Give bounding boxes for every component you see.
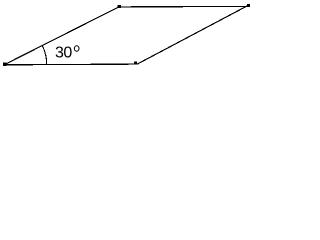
svg-text:30: 30 (55, 45, 72, 62)
angle arc at vertex A (42, 46, 46, 65)
node C (top-right vertex dot) (247, 4, 250, 7)
wire: side AB (bottom edge) (5, 63, 139, 66)
node B (bottom-right vertex dot) (134, 61, 137, 64)
wire: side BC (right diagonal) (138, 5, 249, 64)
node D (top-left vertex dot) (118, 5, 121, 8)
wire: side DC (top edge) (119, 5, 248, 8)
node A (bottom-left vertex dot) (3, 63, 6, 66)
parallelogram angle diagram (0, 0, 256, 71)
wire: side AD (left diagonal) (5, 7, 120, 65)
degree ring of label (74, 46, 79, 52)
